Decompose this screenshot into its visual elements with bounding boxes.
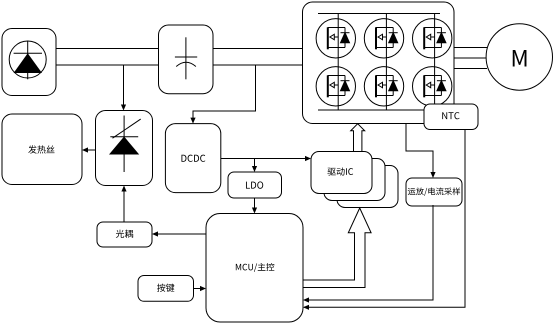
- DCDC converter: [165, 124, 220, 193]
- wire DC- bus to thyristor gate circuit: [121, 65, 126, 111]
- wire phase V to motor: [454, 57, 487, 59]
- wire DC bus to DCDC input: [190, 65, 255, 124]
- push button 按键 S1: [138, 276, 194, 302]
- transistor Q4: [316, 67, 355, 106]
- heater element 发热丝: [2, 114, 82, 185]
- wire inverter shunt to op-amp: [406, 124, 436, 179]
- wire DC- bus rectifier to capacitor: [56, 64, 159, 66]
- capacitor C1 (bus electrolytic): [159, 25, 214, 94]
- op-amp current sense 运放/电流采样 U4: [406, 178, 462, 206]
- wire optocoupler to thyristor: [121, 186, 126, 223]
- wire DCDC to gate driver: [221, 156, 311, 161]
- node DC- rail: [318, 109, 440, 111]
- inverter bridge U2 (6x MOSFET): [303, 2, 455, 124]
- motor M: [486, 24, 552, 90]
- transistor Q3: [413, 19, 452, 58]
- rectifier D1 (AC-DC bridge): [2, 29, 56, 96]
- wire DC+ bus capacitor to inverter: [213, 48, 302, 50]
- wire DCDC branch to LDO: [252, 159, 257, 173]
- block arrow gate driver to inverter: [351, 124, 365, 152]
- transistor Q6: [413, 67, 452, 106]
- block arrow MCU PWM to gate driver: [303, 208, 371, 288]
- wire phase leg V: [385, 14, 387, 111]
- wire op-amp to MCU ADC: [303, 205, 433, 303]
- MCU U6 主控: [206, 214, 303, 323]
- transistor Q1: [316, 19, 355, 58]
- thyristor Q7 (SCR heater switch): [96, 111, 153, 186]
- wire DC+ bus rectifier to capacitor: [56, 48, 159, 50]
- LDO regulator: [228, 172, 282, 198]
- node DC+ rail: [318, 13, 440, 15]
- wire NTC to MCU ADC: [303, 130, 465, 310]
- wire MCU to optocoupler: [152, 231, 206, 236]
- wire phase leg U: [337, 14, 339, 111]
- wire thyristor to heater: [82, 147, 96, 152]
- thermistor NTC: [424, 104, 478, 130]
- optocoupler 光耦 U5: [97, 222, 152, 247]
- transistor Q5: [364, 67, 403, 106]
- wire phase U to motor: [454, 47, 487, 49]
- wire LDO to MCU: [252, 198, 257, 214]
- wire phase leg W: [434, 14, 436, 111]
- wire phase W to motor: [454, 68, 487, 70]
- wire DC- bus capacitor to inverter: [213, 64, 302, 66]
- wire button to MCU: [194, 286, 207, 291]
- gate driver IC stack U3: [311, 152, 398, 208]
- transistor Q2: [364, 19, 403, 58]
